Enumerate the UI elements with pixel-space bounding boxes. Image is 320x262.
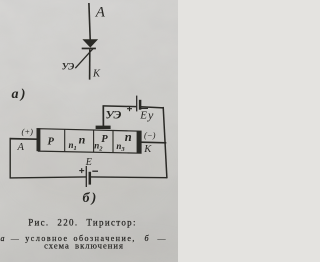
- structure: cathode contact bar (right, filled): [137, 131, 142, 154]
- junction divider P1: [64, 129, 66, 151]
- battery E: minus sign: [92, 170, 98, 172]
- svg-text:n: n: [125, 130, 132, 144]
- svg-text:Еу: Еу: [139, 108, 154, 122]
- svg-text:УЭ: УЭ: [106, 108, 122, 122]
- wire: right side of main loop and gate loop: [163, 107, 167, 178]
- svg-text:схема включения: схема включения: [44, 241, 124, 251]
- junction divider P3: [112, 130, 114, 152]
- battery Ey: plus sign: [127, 106, 132, 111]
- wire: cathode lead from structure: [141, 141, 166, 144]
- wire: gate loop top (right of battery Ey): [140, 107, 163, 108]
- thyristor VS: diode triangle: [82, 39, 98, 47]
- svg-text:А: А: [17, 142, 25, 153]
- wire: left side of main loop: [9, 138, 11, 179]
- svg-text:а): а): [12, 87, 28, 102]
- svg-text:(+): (+): [22, 127, 34, 137]
- structure: anode contact bar (left, filled): [37, 128, 41, 151]
- battery Ey: short negative plate: [139, 100, 142, 110]
- svg-text:Рис. 220. Тиристор:: Рис. 220. Тиристор:: [28, 217, 137, 227]
- battery E: long positive plate: [85, 166, 87, 187]
- svg-text:К: К: [143, 144, 152, 155]
- paper background: [0, 0, 178, 262]
- svg-text:А: А: [95, 4, 106, 20]
- scan smudges: [0, 94, 186, 262]
- wire: anode lead of symbol: [89, 3, 90, 40]
- junction divider P2: [93, 130, 95, 152]
- svg-text:б): б): [83, 191, 99, 206]
- svg-text:Р: Р: [101, 134, 108, 145]
- wire: gate lead (diagonal) of symbol: [75, 48, 93, 68]
- svg-text:n: n: [79, 132, 86, 146]
- svg-text:УЭ: УЭ: [62, 63, 74, 73]
- wire: gate lead up from contact: [102, 106, 104, 127]
- svg-text:(−): (−): [144, 130, 156, 140]
- structure body: outline of p-n-p-n box: [39, 129, 142, 154]
- gate contact bar on p2 layer: [96, 126, 111, 129]
- battery E: plus sign: [79, 168, 84, 173]
- wire: cathode lead of symbol: [89, 49, 91, 79]
- battery E: short negative plate: [89, 172, 92, 185]
- wire: bottom of main loop (left of battery E): [10, 177, 87, 178]
- svg-text:Е: Е: [85, 157, 92, 168]
- battery Ey: long positive plate: [136, 96, 138, 112]
- svg-text:б —: б —: [145, 234, 168, 243]
- svg-text:К: К: [92, 69, 101, 80]
- wire: anode lead to structure: [10, 138, 37, 141]
- wire: bottom of main loop (right of battery E): [90, 176, 168, 179]
- wire: gate loop top (left of battery Ey): [103, 105, 137, 108]
- thyristor VS: cathode bar: [82, 48, 96, 50]
- svg-text:Р: Р: [48, 136, 55, 147]
- overbar of Ey: [141, 107, 148, 109]
